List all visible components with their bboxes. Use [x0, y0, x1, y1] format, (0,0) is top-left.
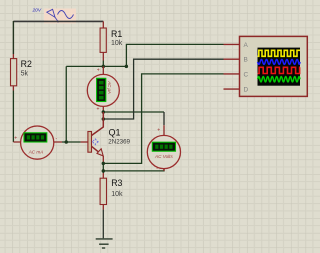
svg-text:C: C [244, 71, 249, 78]
wire emitter node to voltmeter bottom [103, 169, 164, 171]
svg-text:D: D [244, 87, 249, 94]
waveform channel A yellow square [258, 50, 300, 56]
voltmeter VM1 (AC Volts) [147, 125, 180, 172]
wire base node to Q1 base [62, 141, 81, 143]
generator V1 highlight box [44, 9, 76, 24]
svg-text:AC Volts: AC Volts [154, 154, 173, 159]
svg-text:R2: R2 [21, 59, 32, 69]
generator V1 symbol [47, 9, 74, 21]
wire collector node to voltmeter [103, 111, 164, 113]
ground [96, 239, 113, 248]
base pin [81, 141, 88, 143]
svg-text:+: + [157, 127, 160, 133]
oscilloscope screen [258, 48, 301, 86]
svg-text:+: + [97, 107, 100, 113]
resistor R3 [100, 173, 123, 210]
marker [92, 138, 99, 145]
junction emitter node 2 [102, 169, 106, 173]
wire channel B [103, 59, 223, 119]
junction emitter node 1 [102, 162, 106, 166]
junction channel A bend [125, 65, 128, 69]
junction collector node 1 [102, 110, 106, 114]
svg-text:B: B [244, 57, 248, 64]
ammeter AM2 (AC uA) [87, 66, 119, 112]
wire R3 to ground [102, 210, 104, 239]
svg-text:A: A [244, 42, 249, 49]
svg-text:10k: 10k [111, 40, 123, 47]
svg-text:AC mA: AC mA [28, 149, 44, 154]
svg-text:+: + [14, 136, 17, 142]
svg-text:20V: 20V [32, 7, 42, 13]
ammeter AM1 (AC mA) [13, 126, 62, 159]
junction collector node 2 [102, 117, 106, 121]
wire channel C [103, 74, 223, 163]
emitter with arrow [92, 146, 99, 151]
junction base node [65, 140, 69, 144]
waveform channel B blue sine [258, 59, 300, 64]
wire left vertical to R2 [12, 21, 14, 54]
collector lead [92, 112, 104, 136]
base bar [88, 132, 92, 153]
resistor R1 [100, 21, 123, 60]
oscilloscope pins [224, 44, 240, 89]
waveform channel C red square [258, 67, 300, 73]
svg-text:+: + [97, 68, 100, 74]
svg-text:5k: 5k [21, 71, 29, 78]
svg-text:Q1: Q1 [109, 127, 121, 137]
oscilloscope body [240, 36, 308, 96]
svg-text:R1: R1 [111, 29, 122, 39]
wire R1 bottom to node X [102, 61, 104, 67]
junction node X [102, 65, 106, 69]
wire node X horizontal [66, 65, 126, 67]
svg-text:10k: 10k [111, 191, 123, 198]
svg-text:R3: R3 [111, 178, 122, 188]
svg-text:2N2369: 2N2369 [108, 139, 130, 146]
wire channel A [126, 44, 223, 66]
resistor R2 [11, 54, 32, 142]
wire emitter lead down [102, 162, 104, 173]
svg-text:AC µA: AC µA [107, 80, 112, 94]
transistor Q1 [81, 112, 131, 162]
wire top rail [13, 20, 103, 22]
waveform channel D green sine [258, 77, 300, 82]
wire node X down to base node [65, 66, 67, 142]
